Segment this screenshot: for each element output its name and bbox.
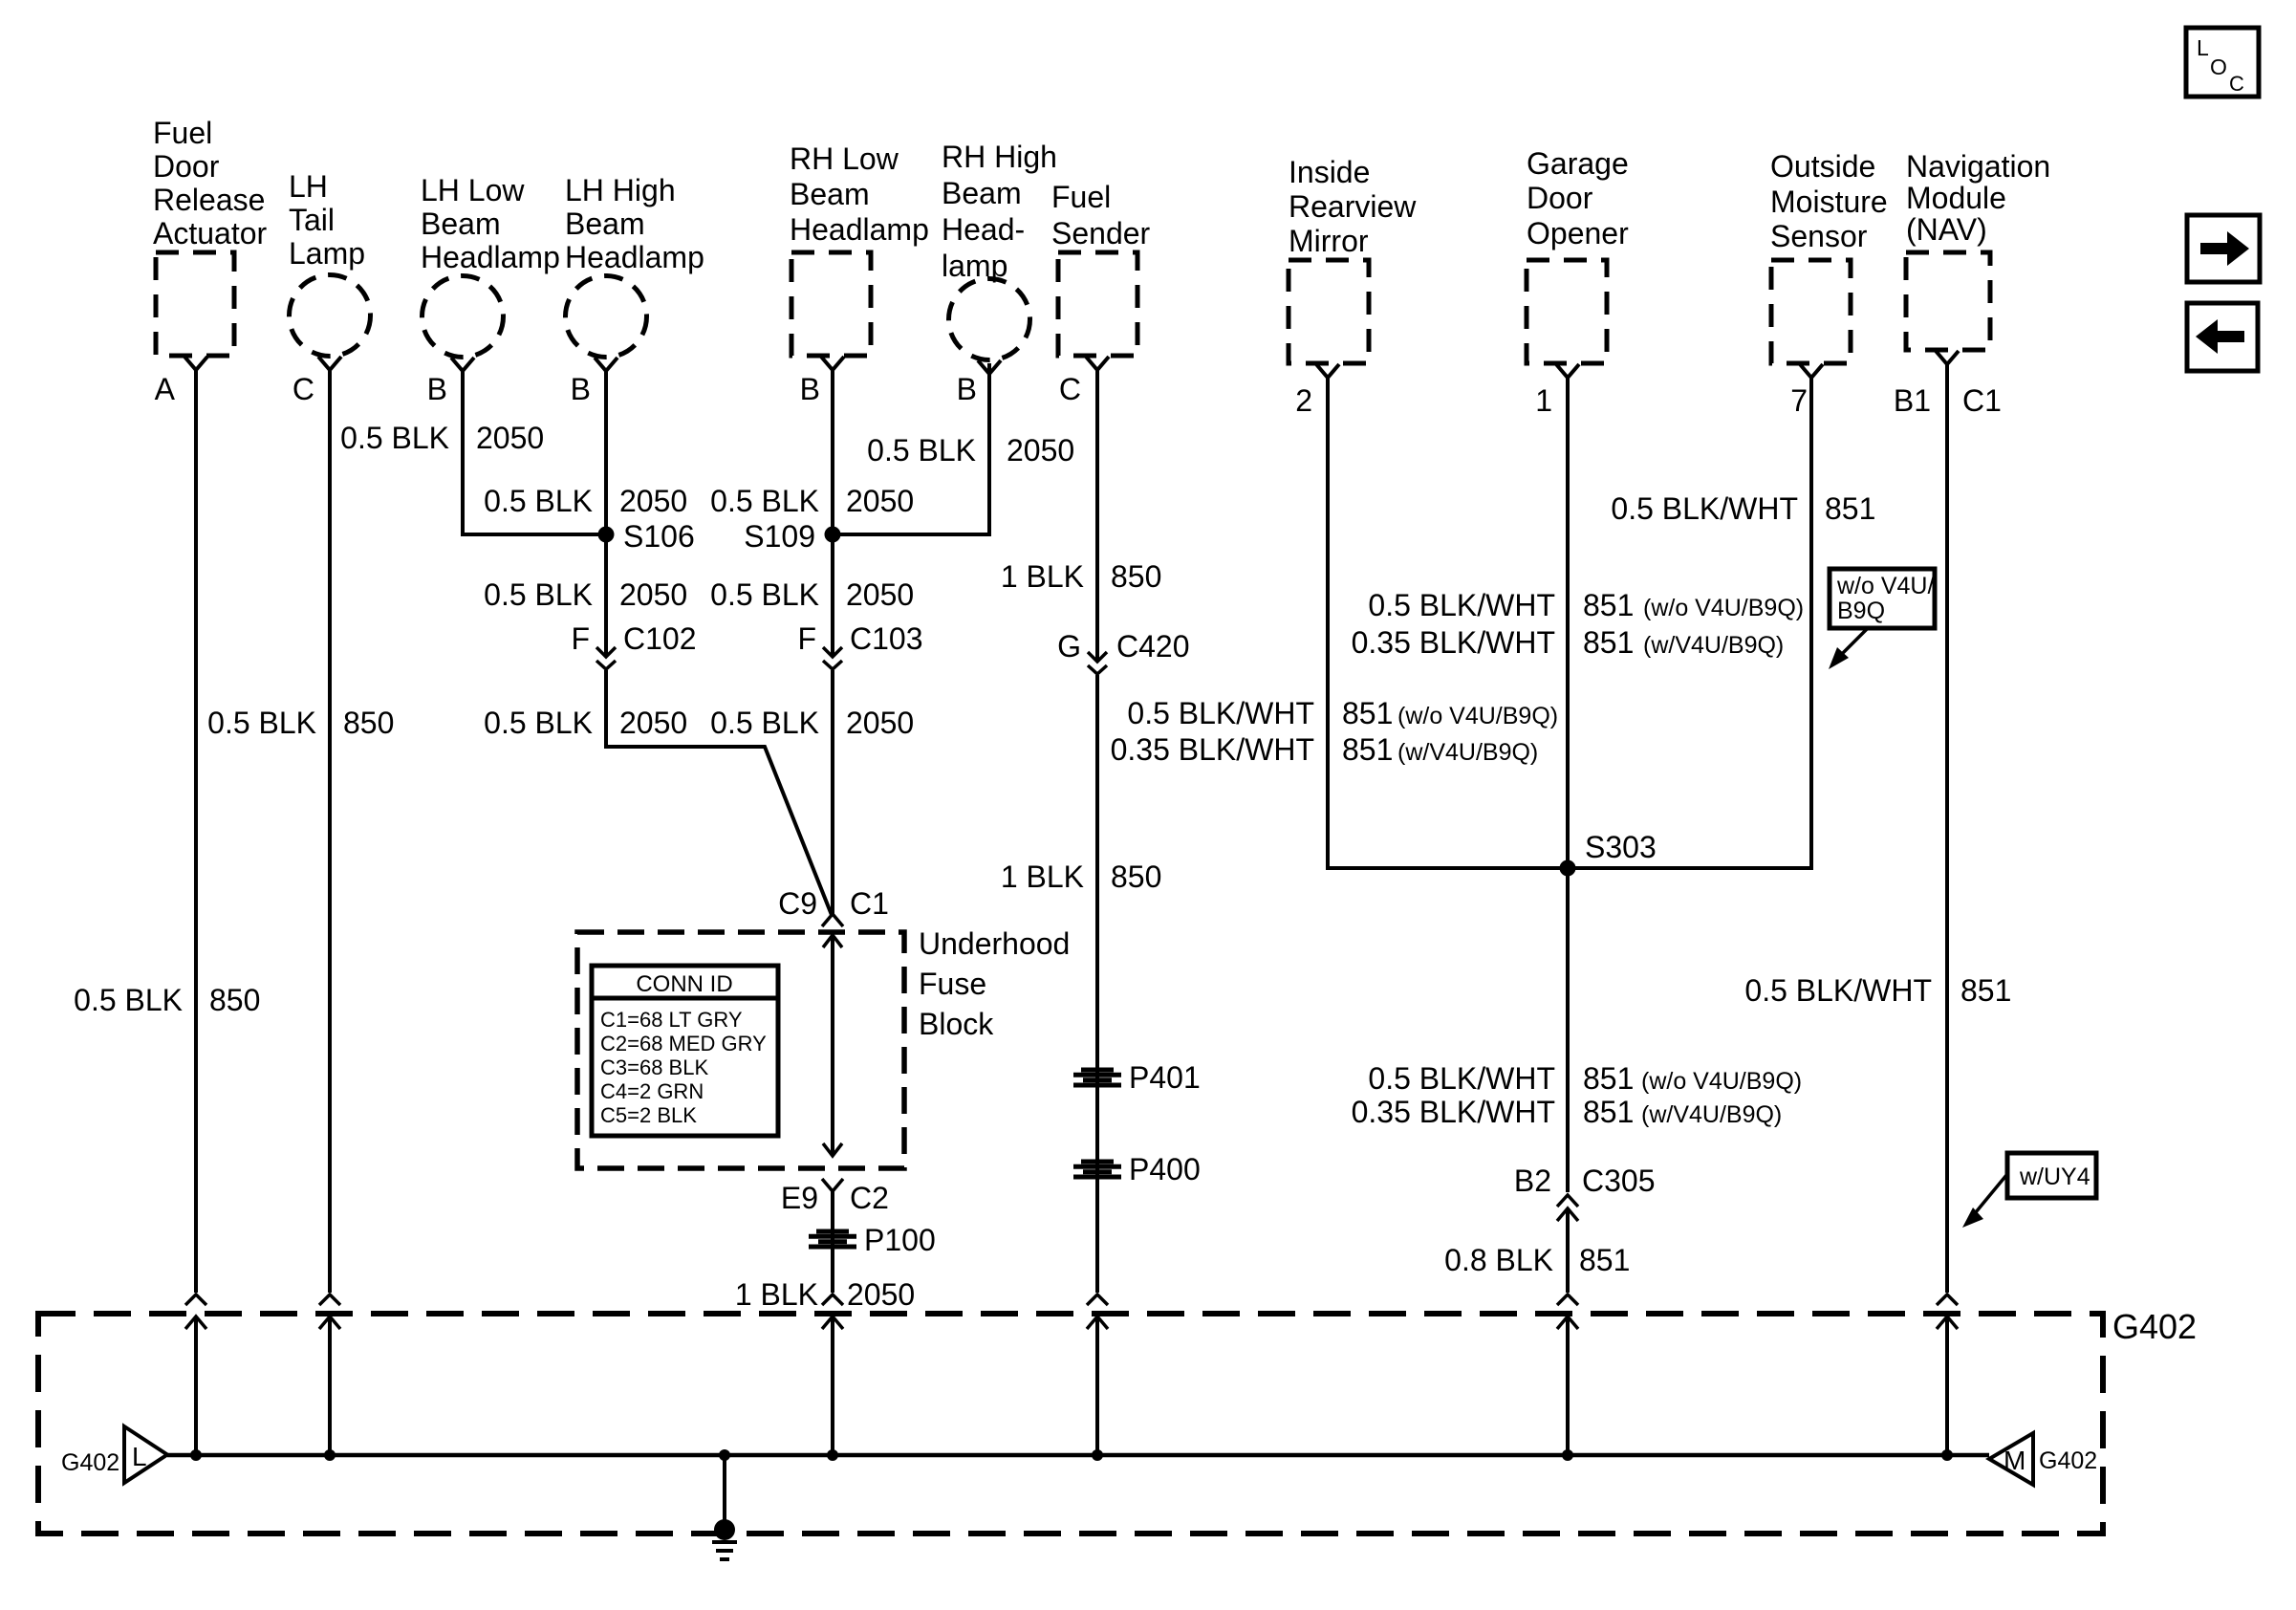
svg-text:S106: S106	[623, 519, 695, 554]
pin fork Fuel Door Release Actuator pin A	[184, 357, 207, 370]
svg-text:2050: 2050	[846, 577, 914, 612]
svg-text:0.5 BLK: 0.5 BLK	[484, 577, 593, 612]
wire c7: C420 to G402 (1 BLK 850)	[1095, 675, 1099, 1293]
wire c2 inside G402 box	[328, 1316, 332, 1455]
splice S109	[825, 527, 841, 543]
legend arrow box (left arrow)	[2187, 303, 2258, 371]
component label: Navigation Module (NAV)	[1906, 149, 2050, 247]
svg-text:Fuse: Fuse	[919, 967, 986, 1001]
wire c1: fuel door release actuator to G402 (0.5 BLK 850)	[194, 370, 198, 1293]
connector at G402 box border (c2)	[319, 1295, 340, 1329]
connector E9/C2 fork below fuse block	[822, 1179, 843, 1191]
wire through fuse block with entry arrow	[823, 935, 842, 1156]
wire c2: LH tail lamp to G402 (0.5 BLK 850)	[328, 370, 332, 1293]
callout box w/o V4U/B9Q	[1829, 569, 1935, 669]
svg-text:C2: C2	[850, 1181, 889, 1215]
svg-text:Outside: Outside	[1770, 149, 1875, 184]
svg-text:LH High: LH High	[565, 173, 676, 207]
svg-text:B2: B2	[1514, 1164, 1551, 1198]
pin fork RH Low Beam Headlamp pin B	[821, 357, 844, 370]
svg-text:w/UY4: w/UY4	[2019, 1164, 2090, 1190]
svg-text:RH High: RH High	[942, 140, 1057, 174]
svg-text:P100: P100	[864, 1223, 936, 1257]
svg-text:Block: Block	[919, 1007, 994, 1041]
junction c7/ground bus	[1092, 1449, 1103, 1461]
connector at G402 box border (c11)	[1937, 1295, 1958, 1329]
wire c11: navigation module to G402 (0.5 BLK/WHT 851)	[1945, 364, 1949, 1293]
svg-text:851: 851	[1825, 491, 1875, 526]
svg-text:(w/V4U/B9Q): (w/V4U/B9Q)	[1641, 1101, 1782, 1128]
legend arrow box (right arrow)	[2187, 215, 2260, 282]
svg-text:851: 851	[1342, 732, 1393, 767]
junction ground stub/bus	[719, 1449, 730, 1461]
pin fork RH High Beam Headlamp pin B	[978, 360, 1001, 374]
svg-text:(w/V4U/B9Q): (w/V4U/B9Q)	[1643, 632, 1784, 659]
junction c9/ground bus	[1562, 1449, 1573, 1461]
component Garage Door Opener (dashed box)	[1527, 260, 1607, 363]
svg-text:0.5 BLK/WHT: 0.5 BLK/WHT	[1744, 973, 1932, 1008]
svg-text:C1: C1	[1962, 383, 2002, 418]
svg-text:C: C	[292, 372, 314, 406]
component label: Outside Moisture Sensor	[1770, 149, 1888, 253]
component label: Fuel Sender	[1051, 180, 1151, 250]
component LH Low Beam Headlamp (dashed circle)	[422, 276, 504, 358]
component label: Inside Rearview Mirror	[1289, 155, 1417, 258]
svg-text:Opener: Opener	[1527, 216, 1629, 250]
wire c10: outside moisture sensor to splice S303 (0.5 BLK/WHT 851)	[1571, 378, 1811, 868]
svg-text:C103: C103	[850, 621, 923, 656]
svg-text:w/o V4U/: w/o V4U/	[1836, 573, 1934, 599]
svg-text:S109: S109	[744, 519, 815, 554]
svg-text:Module: Module	[1906, 181, 2006, 215]
svg-text:B: B	[427, 372, 447, 406]
svg-text:851: 851	[1583, 1095, 1634, 1129]
svg-text:2050: 2050	[619, 577, 687, 612]
svg-text:G402: G402	[2112, 1307, 2197, 1346]
junction c2/ground bus	[324, 1449, 336, 1461]
ground stud G402	[714, 1519, 735, 1540]
pin fork Fuel Sender pin C	[1086, 357, 1109, 370]
svg-text:0.35 BLK/WHT: 0.35 BLK/WHT	[1352, 625, 1555, 660]
svg-text:0.5 BLK: 0.5 BLK	[207, 706, 316, 740]
in-line connector C420 symbol	[1088, 648, 1107, 674]
pin fork LH High Beam Headlamp pin B	[595, 358, 617, 371]
svg-text:Sender: Sender	[1051, 216, 1151, 250]
svg-text:Door: Door	[153, 149, 220, 184]
svg-text:(w/o V4U/B9Q): (w/o V4U/B9Q)	[1397, 703, 1558, 729]
svg-text:B: B	[957, 372, 977, 406]
svg-text:C305: C305	[1582, 1164, 1656, 1198]
svg-text:Underhood: Underhood	[919, 926, 1070, 961]
svg-text:B: B	[571, 372, 591, 406]
svg-text:(w/o V4U/B9Q): (w/o V4U/B9Q)	[1641, 1068, 1802, 1095]
svg-text:(w/V4U/B9Q): (w/V4U/B9Q)	[1397, 739, 1538, 766]
svg-text:Release: Release	[153, 183, 265, 217]
svg-text:L: L	[2197, 35, 2209, 60]
connector C9/C1 fork at fuse block	[822, 914, 843, 926]
svg-text:Mirror: Mirror	[1289, 224, 1369, 258]
svg-text:0.5 BLK: 0.5 BLK	[710, 577, 819, 612]
CONN ID table	[592, 966, 778, 1136]
svg-text:1 BLK: 1 BLK	[1001, 559, 1084, 594]
svg-text:E9: E9	[781, 1181, 818, 1215]
ground terminal triangle L (G402)	[124, 1426, 167, 1483]
svg-text:0.5 BLK: 0.5 BLK	[710, 706, 819, 740]
svg-text:2050: 2050	[476, 421, 544, 455]
svg-text:851: 851	[1583, 588, 1634, 622]
in-line connector C305 symbol	[1557, 1195, 1578, 1221]
svg-text:G402: G402	[2039, 1447, 2097, 1474]
svg-text:C: C	[1059, 372, 1081, 406]
svg-text:851: 851	[1583, 625, 1634, 660]
wire c5 inside G402 box	[831, 1316, 834, 1455]
pin fork Garage Door Opener pin 1	[1556, 364, 1579, 378]
svg-text:B9Q: B9Q	[1837, 598, 1885, 624]
component label: LH High Beam Headlamp	[565, 173, 704, 274]
svg-text:0.5 BLK/WHT: 0.5 BLK/WHT	[1368, 588, 1555, 622]
connector at G402 box border (c9)	[1557, 1295, 1578, 1329]
svg-text:(NAV): (NAV)	[1906, 212, 1987, 247]
svg-text:C3=68 BLK: C3=68 BLK	[600, 1055, 708, 1079]
svg-text:0.5 BLK: 0.5 BLK	[867, 433, 976, 468]
svg-text:850: 850	[343, 706, 394, 740]
svg-text:G402: G402	[61, 1449, 119, 1476]
svg-text:O: O	[2210, 54, 2227, 79]
svg-text:850: 850	[1111, 859, 1161, 894]
wire c9 inside G402 box	[1566, 1316, 1570, 1455]
svg-text:S303: S303	[1585, 830, 1657, 864]
wire c5: RH low beam headlamp to connector C103 (0.5 BLK 2050)	[831, 370, 834, 648]
wire c5: E9/C2 to G402 (1 BLK 2050)	[831, 1191, 834, 1293]
svg-text:851: 851	[1579, 1243, 1630, 1277]
wire c9: C305 to G402 (0.8 BLK 851)	[1566, 1208, 1570, 1293]
svg-text:2050: 2050	[846, 706, 914, 740]
svg-text:2: 2	[1295, 383, 1312, 418]
svg-text:850: 850	[209, 983, 260, 1017]
G402 ground distribution (dashed box)	[38, 1314, 2103, 1534]
svg-text:851: 851	[1342, 696, 1393, 730]
svg-text:0.5 BLK: 0.5 BLK	[340, 421, 449, 455]
in-line connector C102 symbol	[596, 643, 616, 669]
svg-text:C420: C420	[1116, 629, 1190, 664]
svg-text:LH: LH	[289, 169, 328, 204]
svg-text:B: B	[800, 372, 820, 406]
svg-text:Beam: Beam	[565, 207, 645, 241]
component label: LH Low Beam Headlamp	[421, 173, 560, 274]
pin fork Inside Rearview Mirror pin 2	[1316, 364, 1339, 378]
svg-text:G: G	[1057, 629, 1081, 664]
svg-text:CONN ID: CONN ID	[636, 971, 732, 997]
wire c3: LH low beam headlamp to splice S106 (0.5 BLK 2050)	[463, 371, 602, 534]
svg-text:851: 851	[1960, 973, 2011, 1008]
wire c7 inside G402 box	[1095, 1316, 1099, 1455]
component Fuel Door Release Actuator (dashed box)	[156, 252, 234, 356]
svg-text:1 BLK: 1 BLK	[1001, 859, 1084, 894]
grommet P400	[1073, 1162, 1121, 1177]
svg-text:A: A	[155, 372, 176, 406]
svg-text:Headlamp: Headlamp	[565, 240, 704, 274]
grommet P100	[809, 1231, 856, 1247]
svg-text:0.5 BLK: 0.5 BLK	[484, 484, 593, 518]
wire c8: inside rearview mirror to splice S303 (BLK/WHT 851)	[1328, 378, 1564, 868]
wire c9: garage door opener through S303 to C305 (BLK/WHT 851)	[1566, 378, 1570, 1192]
svg-text:0.5 BLK: 0.5 BLK	[74, 983, 183, 1017]
svg-text:B1: B1	[1894, 383, 1931, 418]
svg-text:Lamp: Lamp	[289, 236, 365, 271]
svg-text:LH Low: LH Low	[421, 173, 525, 207]
svg-text:F: F	[571, 621, 590, 656]
label: Underhood Fuse Block	[919, 926, 1070, 1041]
LOC legend box	[2186, 28, 2259, 97]
wire c4: LH high beam headlamp to connector C102 (0.5 BLK 2050)	[604, 371, 608, 648]
component Navigation Module NAV (dashed box)	[1906, 252, 1990, 350]
wire c7: fuel sender to connector C420 (1 BLK 850)	[1095, 370, 1099, 653]
svg-text:F: F	[797, 621, 816, 656]
wire c6: RH high beam headlamp to splice S109 (0.5 BLK 2050)	[836, 363, 989, 534]
svg-text:Garage: Garage	[1527, 146, 1629, 181]
junction c5/ground bus	[827, 1449, 838, 1461]
wire c1 inside G402 box	[194, 1316, 198, 1455]
component label: Garage Door Opener	[1527, 146, 1629, 250]
svg-text:Headlamp: Headlamp	[790, 212, 929, 247]
svg-text:0.35 BLK/WHT: 0.35 BLK/WHT	[1352, 1095, 1555, 1129]
component LH Tail Lamp (dashed circle)	[290, 275, 371, 357]
component RH Low Beam Headlamp (dashed box)	[791, 252, 871, 356]
splice S106	[598, 527, 615, 543]
svg-text:(w/o V4U/B9Q): (w/o V4U/B9Q)	[1643, 595, 1804, 621]
component label: Fuel Door Release Actuator	[153, 116, 268, 250]
junction c1/ground bus	[190, 1449, 202, 1461]
svg-text:850: 850	[1111, 559, 1161, 594]
ground bus wire inside G402	[167, 1453, 1989, 1458]
connector at G402 box border (c5)	[822, 1295, 843, 1329]
svg-text:C9: C9	[778, 886, 817, 921]
svg-text:Inside: Inside	[1289, 155, 1370, 189]
svg-text:Moisture: Moisture	[1770, 185, 1888, 219]
svg-text:2050: 2050	[619, 706, 687, 740]
svg-text:Beam: Beam	[421, 207, 501, 241]
svg-text:C2=68 MED GRY: C2=68 MED GRY	[600, 1032, 767, 1055]
svg-text:2050: 2050	[1007, 433, 1074, 468]
component label: RH High Beam Headlamp	[942, 140, 1057, 283]
svg-text:P400: P400	[1129, 1152, 1201, 1186]
svg-text:Sensor: Sensor	[1770, 219, 1868, 253]
svg-text:2050: 2050	[846, 484, 914, 518]
svg-text:Beam: Beam	[942, 176, 1022, 210]
svg-text:2050: 2050	[619, 484, 687, 518]
svg-text:0.5 BLK/WHT: 0.5 BLK/WHT	[1368, 1061, 1555, 1096]
pin fork LH Low Beam Headlamp pin B	[451, 358, 474, 371]
component Inside Rearview Mirror (dashed box)	[1289, 260, 1369, 363]
component Outside Moisture Sensor (dashed box)	[1771, 260, 1851, 363]
component label: RH Low Beam Headlamp	[790, 141, 929, 247]
component RH High Beam Headlamp (dashed circle)	[949, 279, 1030, 360]
svg-text:C4=2 GRN: C4=2 GRN	[600, 1079, 704, 1103]
svg-text:7: 7	[1790, 383, 1808, 418]
svg-text:Tail: Tail	[289, 203, 335, 237]
junction c11/ground bus	[1941, 1449, 1953, 1461]
svg-text:L: L	[132, 1442, 147, 1471]
callout box w/UY4	[1962, 1153, 2096, 1228]
svg-text:C: C	[2229, 72, 2244, 96]
svg-text:Fuel: Fuel	[153, 116, 212, 150]
grommet P401	[1073, 1070, 1121, 1085]
svg-text:Headlamp: Headlamp	[421, 240, 560, 274]
Underhood Fuse Block (dashed box)	[577, 932, 904, 1168]
svg-text:Rearview: Rearview	[1289, 189, 1417, 224]
svg-text:0.5 BLK/WHT: 0.5 BLK/WHT	[1127, 696, 1314, 730]
svg-text:C5=2 BLK: C5=2 BLK	[600, 1103, 697, 1127]
component label: LH Tail Lamp	[289, 169, 365, 271]
svg-text:Head-: Head-	[942, 212, 1025, 247]
pin fork Outside Moisture Sensor pin 7	[1800, 364, 1823, 378]
svg-text:2050: 2050	[847, 1277, 915, 1312]
svg-text:C1: C1	[850, 886, 889, 921]
wire c11 inside G402 box	[1945, 1316, 1949, 1455]
connector at G402 box border (c7)	[1087, 1295, 1108, 1329]
svg-text:0.5 BLK/WHT: 0.5 BLK/WHT	[1611, 491, 1798, 526]
svg-text:0.35 BLK/WHT: 0.35 BLK/WHT	[1111, 732, 1314, 767]
pin fork Navigation Module pins B1/C1	[1936, 351, 1959, 364]
svg-text:M: M	[2004, 1446, 2025, 1475]
svg-text:Fuel: Fuel	[1051, 180, 1111, 214]
svg-text:851: 851	[1583, 1061, 1634, 1096]
svg-text:C102: C102	[623, 621, 697, 656]
component Fuel Sender (dashed box)	[1058, 252, 1137, 356]
ground terminal triangle M (G402)	[1989, 1433, 2033, 1485]
svg-text:RH Low: RH Low	[790, 141, 899, 176]
in-line connector C103 symbol	[823, 643, 842, 669]
svg-text:C1=68 LT GRY: C1=68 LT GRY	[600, 1008, 743, 1032]
svg-text:Navigation: Navigation	[1906, 149, 2050, 184]
component LH High Beam Headlamp (dashed circle)	[566, 276, 647, 358]
connector at G402 box border (c1)	[185, 1295, 206, 1329]
wire c5: C103 to underhood fuse block C9/C1 (0.5 BLK 2050)	[831, 670, 834, 915]
svg-text:Actuator: Actuator	[153, 216, 268, 250]
svg-text:1: 1	[1535, 383, 1552, 418]
svg-text:Beam: Beam	[790, 177, 870, 211]
svg-text:0.8 BLK: 0.8 BLK	[1444, 1243, 1553, 1277]
svg-text:1 BLK: 1 BLK	[735, 1277, 818, 1312]
splice S303	[1560, 860, 1576, 877]
svg-text:P401: P401	[1129, 1060, 1201, 1095]
wire c4: C102 to underhood fuse block C9/C1 (0.5 BLK 2050)	[606, 670, 832, 915]
earth ground symbol	[712, 1542, 737, 1559]
pin fork LH Tail Lamp pin C	[318, 357, 341, 370]
svg-text:0.5 BLK: 0.5 BLK	[710, 484, 819, 518]
wire: ground bus to earth ground	[723, 1455, 726, 1522]
svg-text:Door: Door	[1527, 181, 1593, 215]
svg-text:0.5 BLK: 0.5 BLK	[484, 706, 593, 740]
